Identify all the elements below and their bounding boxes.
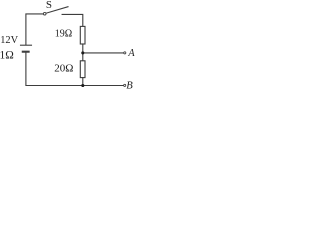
svg-text:12V: 12V: [0, 35, 18, 46]
svg-text:A: A: [127, 48, 135, 59]
node junction at A branch: [81, 51, 84, 54]
terminal A circle: [124, 52, 126, 54]
svg-text:S: S: [46, 0, 52, 11]
wire top-right segment: [62, 14, 83, 26]
battery positive plate: [21, 44, 32, 46]
terminal B circle: [124, 84, 126, 86]
node junction at B branch: [81, 84, 84, 87]
resistor 20Ω box: [80, 61, 85, 78]
svg-text:1Ω: 1Ω: [0, 50, 14, 62]
wire right bottom: [82, 78, 84, 86]
svg-text:20Ω: 20Ω: [54, 63, 73, 75]
wire to terminal A: [83, 52, 124, 54]
switch blade: [46, 7, 68, 13]
battery negative plate: [23, 51, 29, 53]
switch S pivot circle: [43, 12, 46, 15]
wire bottom, battery to terminal B: [26, 53, 124, 86]
svg-text:19Ω: 19Ω: [55, 29, 72, 40]
resistor 19Ω box: [80, 26, 85, 44]
wire left+top segment: [26, 14, 43, 45]
svg-text:B: B: [126, 81, 133, 91]
wire right middle: [82, 44, 84, 61]
